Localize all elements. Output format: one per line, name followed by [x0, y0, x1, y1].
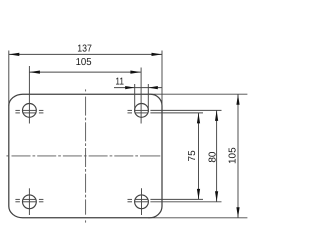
dimension 105 top: dimension line: [29, 71, 140, 73]
dimension 11: right arrowhead (outside pointing left): [148, 86, 158, 89]
hole BR horizontal center line (80 position) with extension to dim 80: [128, 201, 222, 203]
hole TL circle: [23, 104, 37, 118]
svg-text:11: 11: [115, 76, 124, 87]
svg-text:105: 105: [228, 147, 239, 164]
dimension 75: bottom arrowhead: [197, 189, 200, 200]
hole BR circle: [135, 195, 149, 209]
svg-text:105: 105: [76, 57, 92, 68]
dimension 105 right: dimension line: [237, 94, 239, 218]
hole TR circle: [135, 104, 149, 118]
plate vertical center line (dash-dot): [85, 89, 87, 222]
hole BR horizontal center line (75 position) with extension to dim 75: [128, 198, 204, 200]
hole TL horizontal center line (75 position): [15, 112, 43, 114]
hole BL horizontal center line (80 position): [15, 201, 43, 203]
dimension 80 right: dimension line: [216, 110, 218, 201]
hole BL circle: [23, 195, 37, 209]
dimension 11: dimension line: [114, 87, 162, 89]
hole TL vertical center/extension line: [28, 66, 30, 124]
dimension 11: left arrowhead (outside pointing right): [125, 86, 135, 89]
dimension 75 right: dimension line: [198, 113, 200, 199]
dimension 137: right arrowhead: [152, 53, 163, 56]
dimension 11: extension line left (hole tangent): [134, 84, 136, 112]
dimension 11: extension line right (hole tangent): [147, 84, 149, 112]
dimension 105 right: bottom arrowhead: [236, 207, 239, 218]
dimension 137: left arrowhead: [9, 53, 19, 56]
dimension 105 top: right arrowhead: [130, 71, 141, 74]
hole TR horizontal center line (75 position) with extension to dim 75: [128, 112, 204, 114]
svg-text:80: 80: [207, 151, 218, 163]
dimension 137: extension line right: [161, 51, 163, 107]
plate outline (137x105 top plate, top view): [9, 94, 162, 218]
dimension 75: top arrowhead: [197, 113, 200, 124]
dimension 105 right: bottom extension line: [148, 217, 247, 219]
hole BL vertical center line: [28, 188, 30, 215]
dimension 105 right: top arrowhead: [236, 94, 239, 105]
svg-text:137: 137: [77, 44, 92, 55]
dimension 80: top arrowhead: [215, 110, 218, 121]
plate horizontal center line (dash-dot): [6, 155, 160, 157]
dimension 105 top: left arrowhead: [29, 71, 40, 74]
hole BL horizontal center line (75 position): [15, 198, 43, 200]
dimension 105 right: top extension line: [148, 93, 247, 95]
dimension 137: dimension line: [9, 53, 162, 55]
dimension 80: bottom arrowhead: [215, 191, 218, 202]
svg-text:75: 75: [187, 150, 198, 162]
hole TR vertical center/extension line: [140, 68, 142, 124]
hole BR vertical center line: [141, 188, 143, 215]
hole TL horizontal center line (80 position): [15, 109, 43, 111]
hole TR horizontal center line (80 position) with extension to dim 80: [128, 109, 222, 111]
dimension 137: extension line left: [8, 51, 10, 107]
